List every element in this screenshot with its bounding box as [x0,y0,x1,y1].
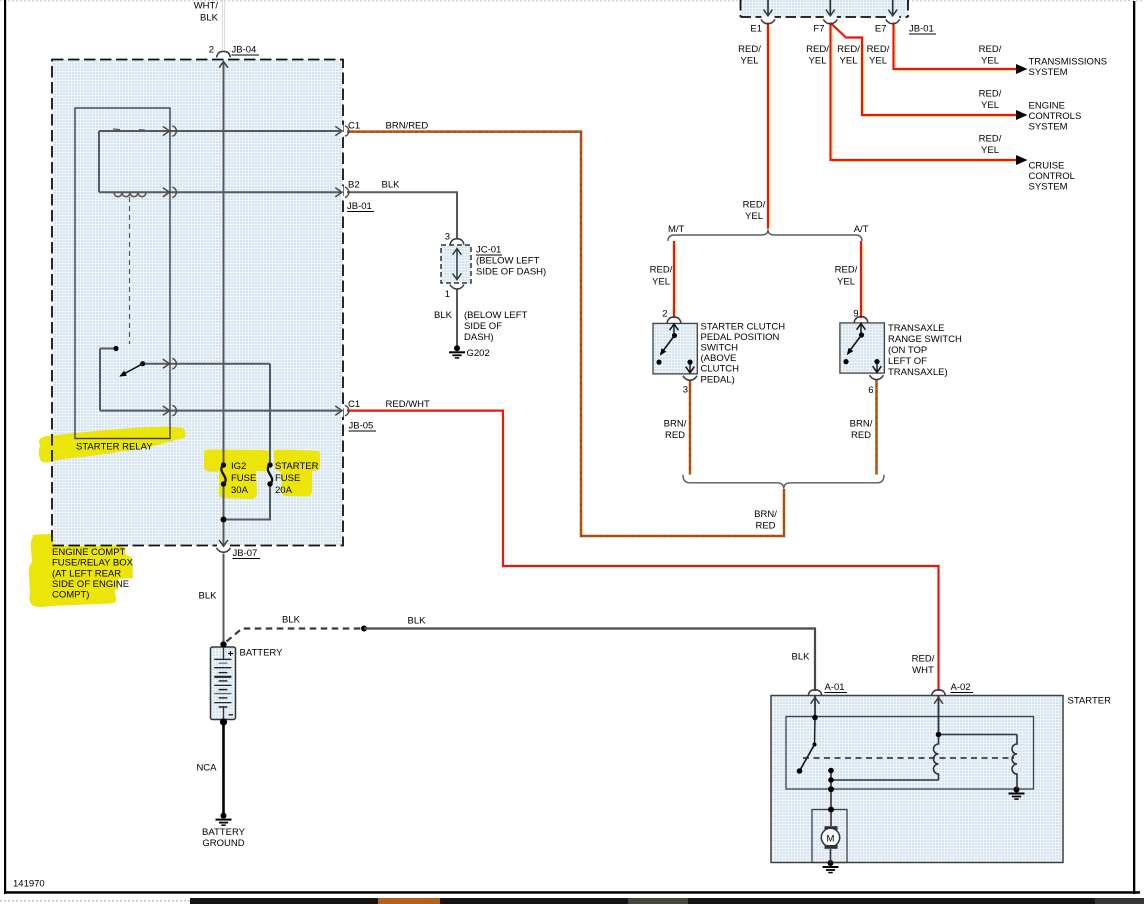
clutch pedal switch box [653,323,697,374]
svg-text:YEL: YEL [981,100,999,111]
svg-text:STARTER: STARTER [275,461,319,472]
svg-text:BRN/: BRN/ [664,419,687,430]
svg-text:M/T: M/T [668,224,685,235]
svg-text:SIDE OF ENGINE: SIDE OF ENGINE [52,579,129,590]
svg-text:YEL: YEL [652,277,670,288]
relay switch fixed contact dot [113,346,118,351]
svg-text:BRN/: BRN/ [850,419,873,430]
svg-text:ENGINE: ENGINE [1029,101,1065,112]
starter relay case [75,108,170,439]
svg-text:1: 1 [445,289,450,300]
svg-text:STARTER: STARTER [1068,696,1112,707]
svg-text:RED/: RED/ [979,44,1002,55]
svg-text:JB-07: JB-07 [233,548,258,559]
wire B2 BLK to JC-01 [347,192,457,239]
connector clutch switch pin3 [683,376,697,380]
svg-text:IG2: IG2 [231,461,246,472]
battery bottom dot [220,718,227,725]
junction dot BLK dashed/solid [361,626,367,632]
svg-text:JB-04: JB-04 [232,45,257,56]
svg-text:C1: C1 [348,399,360,410]
svg-text:BATTERY: BATTERY [240,648,284,659]
svg-text:NCA: NCA [196,763,217,774]
svg-text:FUSE: FUSE [275,473,300,484]
relay mechanical link (dashed) [129,197,131,344]
starter case [771,696,1063,863]
engine compt fuse/relay box [52,60,343,546]
svg-text:SIDE OF: SIDE OF [464,321,502,332]
svg-text:2: 2 [662,309,667,320]
coil top link [939,734,1018,736]
svg-text:RED/: RED/ [835,265,858,276]
svg-text:SYSTEM: SYSTEM [1029,122,1068,133]
relay switch pivot dot [140,361,145,366]
svg-text:RED/: RED/ [912,654,935,665]
svg-text:BLK: BLK [382,180,401,191]
ground G202 [449,345,465,358]
connector range switch pin6 [870,375,884,379]
underbrace BRN/RED join [683,475,884,489]
svg-text:JB-05: JB-05 [349,421,374,432]
wire JC-01 to G202 [456,289,458,348]
svg-text:YEL: YEL [981,56,999,67]
svg-text:JB-01: JB-01 [347,201,372,212]
coil bottom link [831,779,939,781]
motor M1 [825,826,838,830]
WHT/BLK wire top [222,0,225,51]
svg-text:STARTER CLUTCH: STARTER CLUTCH [701,321,786,332]
svg-text:YEL: YEL [981,145,999,156]
svg-text:BATTERY: BATTERY [202,827,246,838]
wire IG2 fuse to JB-07 [223,484,225,546]
svg-text:COMPT): COMPT) [52,590,89,601]
wire RED/YEL F7 to cruise control [831,23,1017,161]
svg-text:9: 9 [853,309,858,320]
WIRES_RED [347,23,1017,692]
svg-text:RED/: RED/ [806,44,829,55]
svg-text:JC-01: JC-01 [476,245,501,256]
svg-text:BLK: BLK [199,591,218,602]
motor box [812,810,847,863]
svg-text:PEDAL POSITION: PEDAL POSITION [701,332,780,343]
wire battery negative NCA [222,722,225,816]
svg-text:ENGINE COMPT: ENGINE COMPT [52,547,126,558]
wire starter fuse to junction [224,484,271,520]
wire RED/YEL E7 to transmissions [894,23,1017,70]
svg-text:TRANSMISSIONS: TRANSMISSIONS [1029,57,1108,68]
svg-text:SIDE OF DASH): SIDE OF DASH) [476,267,546,278]
svg-text:BLK: BLK [282,615,301,626]
svg-text:PEDAL): PEDAL) [701,374,735,385]
connector JB-07 [219,540,228,546]
connector B2 [335,187,349,197]
svg-text:RED/: RED/ [738,44,761,55]
svg-text:6: 6 [868,385,873,396]
solenoid mechanical link dashed [803,757,1014,759]
WIRES_GRAY [99,62,457,644]
wire JB-07 BLK to battery [223,554,225,645]
svg-text:SWITCH: SWITCH [701,343,739,354]
A-02 wire into solenoid [938,696,940,735]
svg-text:SYSTEM: SYSTEM [1029,67,1068,78]
svg-text:BRN/: BRN/ [754,509,777,520]
wire relay coil bottom to B2 [99,191,341,193]
fuse IG2 30A [221,462,226,486]
svg-text:GROUND: GROUND [202,838,244,849]
connector JB-04 [217,51,231,57]
svg-text:TRANSAXLE): TRANSAXLE) [888,367,948,378]
connector clutch switch pin2 [667,317,681,323]
svg-text:RED/: RED/ [979,134,1002,145]
battery top junction dot [220,641,226,647]
hold-in coil [1012,735,1017,790]
connector JC-01 pin1 [450,285,464,289]
svg-text:FUSE: FUSE [231,473,256,484]
svg-text:DASH): DASH) [464,332,494,343]
JC-01 connector box [441,245,471,283]
svg-text:YEL: YEL [869,56,887,67]
svg-text:30A: 30A [231,485,249,496]
svg-text:RED/WHT: RED/WHT [386,399,431,410]
ground battery [216,813,232,826]
connector A-02 [932,690,946,696]
svg-text:BLK: BLK [434,310,453,321]
JC-01 double arrow [456,250,458,278]
svg-text:B2: B2 [348,180,360,191]
ground starter motor [823,860,839,873]
svg-text:RED/: RED/ [837,44,860,55]
system arrow engine controls [1016,110,1028,120]
svg-text:STARTER RELAY: STARTER RELAY [76,442,153,453]
wire BRN/RED C1 to bracket [347,132,784,536]
svg-text:YEL: YEL [840,56,858,67]
svg-text:LEFT OF: LEFT OF [888,356,927,367]
svg-text:E1: E1 [750,24,762,35]
relay switch blade [121,364,143,376]
WIRES_BRN [347,132,877,536]
svg-text:SYSTEM: SYSTEM [1029,182,1068,193]
svg-text:20A: 20A [275,485,293,496]
svg-text:A-01: A-01 [825,682,845,693]
wire relay coil left [98,131,100,192]
svg-text:3: 3 [445,232,450,243]
wire relay coil top to C1 [99,130,341,132]
svg-text:BLK: BLK [792,652,811,663]
svg-text:RED/: RED/ [743,200,766,211]
battery minus mark [229,714,234,716]
connector C1 JB-05 [335,405,349,415]
svg-text:3: 3 [683,385,688,396]
svg-text:E7: E7 [875,24,887,35]
connector A-01 [808,690,822,696]
pull-in coil [934,735,939,781]
transaxle range switch internals [843,324,881,373]
svg-text:RED: RED [665,430,685,441]
svg-text:YEL: YEL [837,277,855,288]
svg-text:WHT/: WHT/ [194,1,219,12]
connector relay pins [163,126,177,136]
svg-text:YEL: YEL [741,56,759,67]
svg-text:M: M [827,834,835,845]
solenoid switch blade [800,745,815,772]
JB-01 junction box (top) [741,0,909,17]
BLUEFILLS [52,60,343,546]
svg-text:C1: C1 [348,121,360,132]
svg-text:(ON TOP: (ON TOP [888,345,927,356]
svg-text:YEL: YEL [809,56,827,67]
connector JC-01 pin3 [450,239,464,245]
yellow stripes on RED/YEL wires [769,26,771,227]
svg-text:(ABOVE: (ABOVE [701,353,737,364]
border gaps at connectors [341,125,344,137]
wire relay switch fixed contact [100,348,114,350]
junction dot below fuses [221,517,227,523]
PAGEFRAME [0,0,1144,2]
svg-text:RED/: RED/ [979,89,1002,100]
wire relay pivot to starter fuse branch [145,363,270,365]
wire BRN/RED clutch switch out [689,380,692,475]
A-01 wire into solenoid [814,696,816,718]
svg-text:RED/: RED/ [650,265,673,276]
svg-text:RANGE SWITCH: RANGE SWITCH [888,334,962,345]
wire RED/YEL F7 branch to engine controls [831,23,1017,115]
wire main vertical JB-04 to IG2 fuse [223,62,225,465]
svg-text:RED: RED [851,430,871,441]
wire RED/YEL A/T branch [860,241,862,318]
battery plus terminal [228,651,233,656]
svg-text:RED: RED [755,521,775,532]
svg-text:(AT LEFT REAR: (AT LEFT REAR [52,569,121,580]
svg-text:BRN/RED: BRN/RED [386,121,429,132]
wire RED/WHT C1 JB-05 to starter A-02 [347,411,939,691]
svg-text:FUSE/RELAY BOX: FUSE/RELAY BOX [52,558,134,569]
solenoid inner box [786,717,1034,790]
svg-text:G202: G202 [467,348,490,359]
svg-text:(BELOW LEFT: (BELOW LEFT [476,256,540,267]
overbrace M/T A/T [668,230,862,241]
wire BRN/RED range switch out [875,380,878,475]
solenoid switch stem [814,718,817,745]
system arrow transmissions [1016,64,1028,74]
svg-text:RED/: RED/ [867,44,890,55]
solenoid switch top dot [812,715,818,721]
connectors JB-01 top box [768,0,893,16]
transaxle range switch box [840,323,885,373]
svg-text:BLK: BLK [408,616,427,627]
wire relay switch left drop [99,349,101,411]
starter clutch pedal position switch internals [656,324,694,373]
connector range switch pin9 [854,317,868,323]
svg-text:CONTROLS: CONTROLS [1029,111,1082,122]
svg-text:2: 2 [209,45,214,56]
svg-text:A/T: A/T [854,224,869,235]
svg-text:CRUISE: CRUISE [1029,161,1065,172]
connector C1 top [335,126,349,136]
wire BLK solid to starter A-01 [364,629,815,692]
wire starter fuse branch down [269,364,271,465]
svg-text:WHT: WHT [912,665,934,676]
system arrow cruise control [1016,155,1028,165]
motor feed wire [830,771,832,827]
svg-text:BLK: BLK [200,13,219,24]
fuse STARTER 20A [267,462,272,486]
svg-text:YEL: YEL [745,211,763,222]
relay coil winding [114,192,146,196]
wire RED/YEL E1 [767,23,769,229]
svg-text:JB-01: JB-01 [909,24,934,35]
HIGHLIGHTS [29,427,320,608]
svg-text:TRANSAXLE: TRANSAXLE [888,323,945,334]
relay contact marks [113,128,120,131]
wire relay switch to C1 JB-05 [100,410,341,412]
wire RED/YEL M/T branch [673,241,675,318]
svg-text:A-02: A-02 [951,682,971,693]
wire BLK dashed battery to starter [227,629,362,642]
svg-text:F7: F7 [813,24,824,35]
battery box [211,647,236,720]
BOTTOMSTRIP [0,900,190,902]
svg-text:(BELOW LEFT: (BELOW LEFT [464,310,528,321]
svg-text:CLUTCH: CLUTCH [701,364,740,375]
ground solenoid coil [1009,787,1025,800]
svg-text:CONTROL: CONTROL [1029,171,1075,182]
svg-text:141970: 141970 [13,879,45,890]
